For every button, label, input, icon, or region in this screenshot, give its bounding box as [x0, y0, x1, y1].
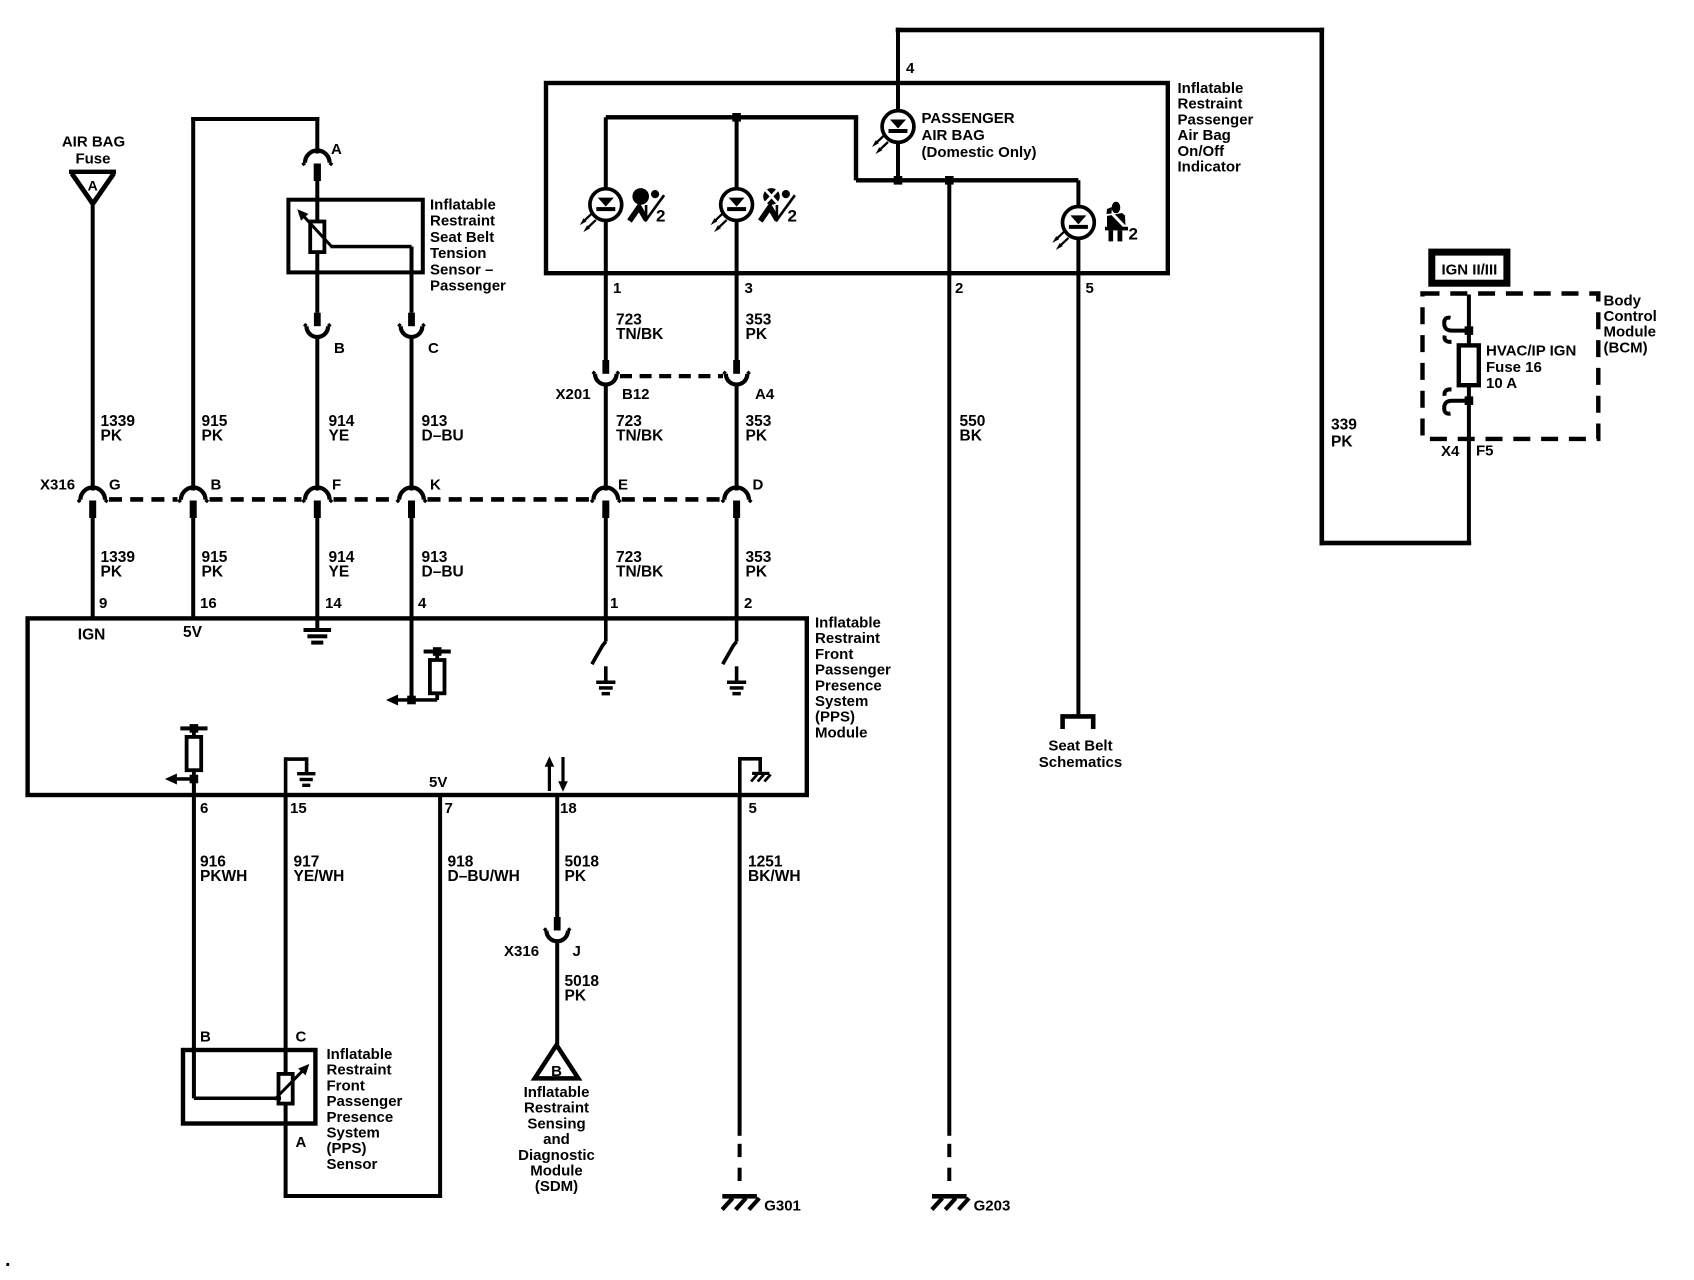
svg-text:AIR BAG: AIR BAG	[922, 127, 985, 144]
svg-text:A: A	[88, 178, 98, 194]
svg-text:YE: YE	[329, 428, 350, 445]
svg-text:Indicator: Indicator	[1178, 159, 1242, 176]
svg-text:Seat Belt: Seat Belt	[430, 229, 494, 246]
svg-text:Inflatable: Inflatable	[524, 1084, 590, 1101]
svg-text:D: D	[753, 477, 764, 494]
svg-text:Control: Control	[1604, 308, 1657, 325]
svg-text:J: J	[573, 943, 581, 960]
svg-text:7: 7	[445, 800, 453, 817]
svg-text:B: B	[334, 340, 345, 357]
svg-text:(SDM): (SDM)	[535, 1178, 578, 1195]
svg-text:TN/BK: TN/BK	[616, 326, 664, 343]
svg-text:On/Off: On/Off	[1178, 143, 1226, 160]
svg-text:Inflatable: Inflatable	[1178, 80, 1244, 97]
svg-text:E: E	[618, 477, 628, 494]
svg-text:F5: F5	[1476, 443, 1494, 460]
svg-text:Fuse 16: Fuse 16	[1486, 359, 1542, 376]
svg-text:YE: YE	[329, 564, 350, 581]
svg-text:K: K	[430, 477, 441, 494]
svg-text:.: .	[5, 1249, 11, 1271]
svg-text:PK: PK	[565, 988, 587, 1005]
svg-text:339: 339	[1331, 417, 1357, 434]
svg-text:PK: PK	[746, 326, 768, 343]
svg-text:2: 2	[656, 207, 665, 226]
svg-text:Diagnostic: Diagnostic	[518, 1147, 595, 1164]
svg-text:PK: PK	[202, 564, 224, 581]
svg-text:Restraint: Restraint	[430, 213, 495, 230]
svg-text:IGN II/III: IGN II/III	[1441, 262, 1497, 279]
svg-text:Schematics: Schematics	[1039, 754, 1122, 771]
svg-text:4: 4	[906, 60, 915, 77]
svg-text:Front: Front	[327, 1077, 365, 1094]
svg-text:B: B	[551, 1063, 562, 1080]
svg-text:Sensing: Sensing	[527, 1115, 585, 1132]
svg-text:1: 1	[613, 280, 621, 297]
svg-text:C: C	[296, 1029, 307, 1046]
svg-text:2: 2	[955, 280, 963, 297]
svg-text:9: 9	[99, 595, 107, 612]
svg-text:Inflatable: Inflatable	[815, 615, 881, 632]
svg-text:C: C	[428, 340, 439, 357]
svg-text:2: 2	[788, 207, 797, 226]
svg-text:Presence: Presence	[815, 677, 882, 694]
svg-text:A4: A4	[755, 386, 775, 403]
svg-text:PK: PK	[565, 868, 587, 885]
svg-text:6: 6	[200, 800, 208, 817]
svg-text:Inflatable: Inflatable	[430, 197, 496, 214]
svg-text:X201: X201	[556, 386, 591, 403]
svg-text:Passenger: Passenger	[327, 1093, 403, 1110]
svg-text:PK: PK	[101, 564, 123, 581]
svg-text:PKWH: PKWH	[200, 868, 247, 885]
svg-text:BK: BK	[960, 428, 983, 445]
svg-text:5: 5	[1086, 280, 1094, 297]
svg-text:G301: G301	[764, 1198, 801, 1215]
svg-text:4: 4	[418, 595, 427, 612]
svg-text:YE/WH: YE/WH	[294, 868, 345, 885]
svg-text:Passenger: Passenger	[815, 662, 891, 679]
svg-text:PK: PK	[202, 428, 224, 445]
svg-text:D–BU: D–BU	[422, 564, 464, 581]
svg-text:Passenger: Passenger	[430, 278, 506, 295]
svg-text:5V: 5V	[429, 774, 447, 791]
svg-text:Presence: Presence	[327, 1109, 394, 1126]
svg-text:B: B	[211, 477, 222, 494]
svg-text:and: and	[543, 1131, 570, 1148]
svg-text:Passenger: Passenger	[1178, 111, 1254, 128]
svg-text:X316: X316	[40, 477, 75, 494]
svg-text:PK: PK	[746, 564, 768, 581]
svg-text:G: G	[109, 477, 121, 494]
svg-text:X316: X316	[504, 943, 539, 960]
svg-text:Air Bag: Air Bag	[1178, 127, 1231, 144]
svg-text:Restraint: Restraint	[524, 1100, 589, 1117]
svg-text:16: 16	[200, 595, 217, 612]
svg-text:Seat Belt: Seat Belt	[1048, 738, 1112, 755]
svg-text:B12: B12	[622, 386, 650, 403]
svg-text:18: 18	[560, 800, 577, 817]
svg-text:10 A: 10 A	[1486, 375, 1517, 392]
svg-text:G203: G203	[974, 1198, 1011, 1215]
svg-text:Fuse: Fuse	[75, 151, 110, 168]
svg-text:X4: X4	[1441, 443, 1460, 460]
svg-text:PK: PK	[101, 428, 123, 445]
svg-text:HVAC/IP IGN: HVAC/IP IGN	[1486, 343, 1576, 360]
svg-text:D–BU: D–BU	[422, 428, 464, 445]
svg-text:15: 15	[290, 800, 307, 817]
svg-text:IGN: IGN	[78, 627, 106, 644]
svg-text:Restraint: Restraint	[815, 630, 880, 647]
svg-text:Body: Body	[1604, 293, 1642, 310]
svg-text:TN/BK: TN/BK	[616, 564, 664, 581]
svg-text:System: System	[815, 693, 868, 710]
svg-text:2: 2	[744, 595, 752, 612]
svg-text:B: B	[200, 1029, 211, 1046]
svg-text:(PPS): (PPS)	[815, 709, 855, 726]
svg-text:Restraint: Restraint	[1178, 96, 1243, 113]
svg-text:3: 3	[745, 280, 753, 297]
svg-text:2: 2	[1129, 225, 1138, 244]
svg-text:F: F	[332, 477, 341, 494]
svg-text:14: 14	[325, 595, 342, 612]
svg-text:A: A	[331, 141, 342, 158]
svg-text:Inflatable: Inflatable	[327, 1046, 393, 1063]
svg-text:(Domestic Only): (Domestic Only)	[922, 144, 1037, 161]
svg-text:5V: 5V	[183, 624, 203, 641]
svg-text:D–BU/WH: D–BU/WH	[448, 868, 520, 885]
svg-text:Module: Module	[530, 1163, 583, 1180]
svg-text:Restraint: Restraint	[327, 1062, 392, 1079]
svg-text:AIR BAG: AIR BAG	[62, 134, 125, 151]
svg-text:PASSENGER: PASSENGER	[922, 110, 1015, 127]
svg-text:(BCM): (BCM)	[1604, 339, 1648, 356]
svg-text:Sensor: Sensor	[327, 1156, 378, 1173]
svg-text:Front: Front	[815, 646, 853, 663]
svg-text:A: A	[296, 1134, 307, 1151]
svg-text:System: System	[327, 1125, 380, 1142]
svg-text:BK/WH: BK/WH	[748, 868, 801, 885]
svg-text:Module: Module	[815, 724, 868, 741]
svg-text:Tension: Tension	[430, 245, 486, 262]
svg-text:Sensor –: Sensor –	[430, 261, 493, 278]
svg-text:PK: PK	[1331, 434, 1353, 451]
svg-text:Module: Module	[1604, 324, 1657, 341]
svg-text:PK: PK	[746, 428, 768, 445]
svg-text:1: 1	[610, 595, 618, 612]
svg-text:TN/BK: TN/BK	[616, 428, 664, 445]
svg-text:5: 5	[749, 800, 757, 817]
svg-text:(PPS): (PPS)	[327, 1140, 367, 1157]
